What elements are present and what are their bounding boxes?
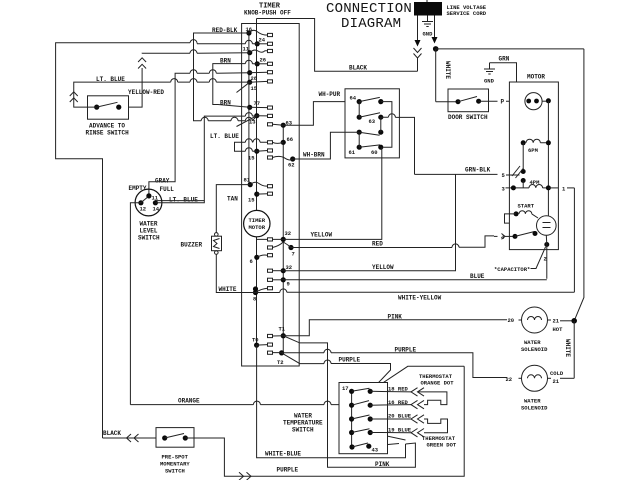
svg-text:GREEN DOT: GREEN DOT <box>427 442 457 449</box>
wire water level 12 to orange riser <box>130 203 141 405</box>
svg-text:PURPLE: PURPLE <box>277 467 299 474</box>
water solenoid hot (20-21) <box>508 307 575 353</box>
wire BLACK (cord to timer top) <box>257 19 418 72</box>
svg-text:WATER: WATER <box>524 339 541 346</box>
timer left bus B <box>256 19 258 346</box>
svg-text:17: 17 <box>342 385 349 392</box>
svg-text:MOTOR: MOTOR <box>527 74 545 81</box>
svg-text:77: 77 <box>254 100 261 107</box>
wire LT. BLUE (water level 14 to timer 13) <box>155 113 257 204</box>
wire PURPLE (T2 terminal to cold solenoid 22) <box>273 347 508 378</box>
centrifugal switch (motor 5) <box>502 143 526 188</box>
speed selector box <box>345 89 399 158</box>
wire WHITE (junction to top right bus) <box>436 49 584 80</box>
wire RED-BLK (timer 16 to 13) <box>194 27 257 121</box>
svg-text:ORANGE DOT: ORANGE DOT <box>421 380 455 387</box>
timer contact T2 <box>268 350 285 366</box>
selector contact 61 <box>349 130 384 156</box>
wire BLACK (to pre-spot switch) <box>103 430 157 442</box>
timer box <box>242 24 300 367</box>
thermostat orange dot symbol <box>418 373 455 405</box>
wire WHITE (buzzer to timer 8) <box>216 254 255 293</box>
svg-text:SOLENOID: SOLENOID <box>521 346 548 353</box>
wire GRN to motor <box>490 56 520 93</box>
svg-text:GRN: GRN <box>499 56 510 63</box>
svg-text:WHITE: WHITE <box>444 61 451 79</box>
svg-text:MOTOR: MOTOR <box>249 224 266 231</box>
wire selector 63 to GRN-BLK riser <box>381 117 415 174</box>
wire PURPLE (pre-spot to thermostat riser) <box>185 366 464 480</box>
svg-text:32: 32 <box>286 264 293 271</box>
timer contact 28 <box>247 70 272 82</box>
svg-text:PRE-SPOT: PRE-SPOT <box>162 454 189 461</box>
label 20 BLUE with arrow <box>370 412 424 423</box>
svg-text:60: 60 <box>371 149 378 156</box>
wire YELLOW-RED (adv switch to timer 11) <box>119 50 250 107</box>
wire right bus down to hot junction <box>574 49 584 321</box>
wire water level 14 right <box>155 201 204 203</box>
timer contact 77 <box>247 100 272 110</box>
wire PURPLE (T2 to thermostat 17) <box>282 353 391 391</box>
selector contact 63 <box>357 113 384 125</box>
svg-text:61: 61 <box>349 149 356 156</box>
svg-text:HOT: HOT <box>553 326 564 333</box>
label 18 RED with arrow <box>370 385 424 396</box>
svg-text:GRN-BLK: GRN-BLK <box>465 167 491 174</box>
svg-text:*CAPACITOR*: *CAPACITOR* <box>494 266 530 273</box>
advance to rinse switch <box>86 96 130 137</box>
svg-text:ORANGE: ORANGE <box>178 398 200 405</box>
wire TAN (timer 81 to buzzer) <box>216 185 250 233</box>
water solenoid cold (22-21) <box>506 365 575 411</box>
svg-text:63: 63 <box>369 118 376 125</box>
motor terminal 2 / capacitor node <box>544 235 550 278</box>
wire WH-BRN (timer 62 to selector 61) <box>293 132 360 159</box>
svg-text:GND: GND <box>423 31 434 38</box>
svg-text:4PM: 4PM <box>530 179 541 186</box>
wire PINK (lower link to thermostat 19/43) <box>328 443 416 468</box>
motor terminal P <box>501 99 525 106</box>
capacitor label <box>494 247 546 273</box>
line voltage service cord (black box) <box>414 0 487 17</box>
selector internal links <box>359 102 392 148</box>
wire GRN-BLK (to motor 5) <box>415 167 520 176</box>
svg-text:T2: T2 <box>277 359 284 366</box>
label TIMER KNOB-PUSH OFF <box>244 3 291 17</box>
svg-text:BLACK: BLACK <box>349 65 367 72</box>
svg-text:6: 6 <box>250 258 253 265</box>
svg-text:26: 26 <box>260 57 267 64</box>
title CONNECTION DIAGRAM <box>326 1 412 32</box>
water temperature switch label <box>283 413 323 434</box>
start winding coil <box>514 203 538 219</box>
door switch DS1 <box>436 89 498 121</box>
wire thermostat 17 to purple riser (pre-spot net) <box>370 366 464 391</box>
svg-text:WH-BRN: WH-BRN <box>303 152 325 159</box>
wire ORANGE (water level 12 to thermostat 16) <box>130 398 351 405</box>
timer contact 9 <box>268 277 290 287</box>
start tab (left protrusion) <box>505 214 517 223</box>
thermostat contact 19 <box>349 429 373 435</box>
svg-text:66: 66 <box>287 136 294 143</box>
timer contact 7 <box>268 242 295 258</box>
svg-text:2: 2 <box>544 256 547 263</box>
timer contact 66 <box>268 136 294 145</box>
svg-text:BLUE: BLUE <box>470 273 485 280</box>
svg-text:12: 12 <box>140 206 147 213</box>
wire white-yellow riser <box>573 188 575 292</box>
svg-text:WHITE: WHITE <box>219 286 237 293</box>
wire to timer 24 (border run to pre-spot) <box>56 40 258 438</box>
svg-text:32: 32 <box>285 230 292 237</box>
timer contact 16 <box>246 26 273 37</box>
timer contact 26 <box>255 57 273 67</box>
buzzer <box>181 233 222 255</box>
svg-text:RED: RED <box>372 241 383 248</box>
timer contact 15c <box>248 192 273 204</box>
start switch circle <box>537 216 557 236</box>
timer contact 6 <box>250 254 273 265</box>
svg-text:SERVICE CORD: SERVICE CORD <box>447 10 487 17</box>
timer contact 32b <box>268 264 293 273</box>
svg-text:RINSE SWITCH: RINSE SWITCH <box>86 130 130 137</box>
water level switch <box>129 185 175 242</box>
svg-text:21: 21 <box>553 378 560 385</box>
svg-text:T1: T1 <box>279 326 286 333</box>
wire white down to door switch <box>435 49 437 102</box>
svg-text:15: 15 <box>251 85 258 92</box>
svg-text:WATER: WATER <box>524 398 541 405</box>
thermostat green dot symbol <box>424 419 448 433</box>
svg-text:SWITCH: SWITCH <box>165 468 185 475</box>
wire PINK (timer T1 to hot solenoid 20) <box>283 314 507 336</box>
svg-text:14: 14 <box>153 206 160 213</box>
selector contact 64 <box>350 95 384 105</box>
svg-text:WATER: WATER <box>140 221 158 228</box>
svg-text:GRAY: GRAY <box>155 178 170 185</box>
thermostat contact 43 <box>349 443 378 454</box>
svg-text:DIAGRAM: DIAGRAM <box>341 16 401 32</box>
svg-text:15: 15 <box>248 197 255 204</box>
ground symbol GND (green) <box>484 63 495 85</box>
timer contact 63 <box>268 120 293 128</box>
svg-text:11: 11 <box>152 195 159 202</box>
label 19 BLUE with arrow <box>370 426 457 448</box>
svg-text:KNOB-PUSH OFF: KNOB-PUSH OFF <box>244 10 291 17</box>
svg-text:T0: T0 <box>252 337 259 344</box>
wire YELLOW (timer 32b to grn-blk riser) <box>283 174 455 271</box>
svg-text:BUZZER: BUZZER <box>181 242 203 249</box>
timer contact 62 <box>268 156 296 169</box>
svg-text:CONNECTION: CONNECTION <box>326 1 412 17</box>
svg-text:WATER: WATER <box>294 413 312 420</box>
svg-text:COLD: COLD <box>550 370 564 377</box>
wire timer 66 to 15b notch <box>235 139 268 151</box>
pre-spot momentary switch <box>156 428 194 475</box>
svg-text:20: 20 <box>508 317 515 324</box>
thermostat contact box <box>339 383 388 454</box>
svg-text:DOOR SWITCH: DOOR SWITCH <box>448 114 488 121</box>
svg-text:LT. BLUE: LT. BLUE <box>210 133 239 140</box>
timer right bus <box>282 125 284 353</box>
label 16 RED with arrow <box>370 399 424 409</box>
svg-text:43: 43 <box>372 447 379 454</box>
svg-text:YELLOW-RED: YELLOW-RED <box>128 89 164 96</box>
svg-text:WHITE-YELLOW: WHITE-YELLOW <box>398 295 442 302</box>
svg-text:GND: GND <box>484 78 495 85</box>
white lead arrow connector <box>432 16 438 44</box>
svg-text:PURPLE: PURPLE <box>339 357 361 364</box>
timer contact 8 <box>253 286 273 302</box>
svg-text:BLACK: BLACK <box>103 430 121 437</box>
svg-text:6PM: 6PM <box>528 147 539 154</box>
thermostat contact 16 <box>349 401 373 408</box>
svg-text:SWITCH: SWITCH <box>292 427 314 434</box>
timer left bus A <box>248 33 250 185</box>
svg-text:TIMER: TIMER <box>249 217 266 224</box>
wire white-blue net (T1 blade riser) <box>283 336 327 458</box>
ground symbol GND (service cord) <box>422 16 433 38</box>
svg-text:9: 9 <box>287 281 290 288</box>
svg-text:START: START <box>518 203 535 210</box>
wire YELLOW (timer 32a to selector 60) <box>283 147 382 239</box>
wire WHITE-YELLOW (timer 8 to motor 1) <box>256 289 575 302</box>
svg-text:SWITCH: SWITCH <box>138 235 160 242</box>
svg-text:81: 81 <box>244 177 251 184</box>
timer contact T0 <box>252 337 273 348</box>
timer motor M2 <box>244 210 270 236</box>
svg-text:WH-PUR: WH-PUR <box>319 91 341 98</box>
motor box <box>509 74 558 250</box>
thermostat slants 19R 43R <box>369 433 406 447</box>
node white junction <box>433 46 439 52</box>
svg-text:62: 62 <box>288 162 295 169</box>
timer contact 15b <box>248 149 273 162</box>
wire WHITE (hot to cold solenoid) <box>564 321 574 379</box>
svg-text:21: 21 <box>553 317 560 324</box>
svg-text:7: 7 <box>292 251 295 258</box>
wire BRN (timer 26 to 77) <box>213 58 257 108</box>
thermostat contact 17 <box>342 385 373 394</box>
svg-text:WHITE: WHITE <box>564 339 571 357</box>
coil 4PM (motor 3) <box>502 179 551 193</box>
wire WH-PUR (timer 63 to selector box 64) <box>283 91 359 125</box>
svg-text:FULL: FULL <box>160 186 175 193</box>
svg-text:ADVANCE TO: ADVANCE TO <box>89 123 125 130</box>
motor main winding circle <box>525 93 551 110</box>
wire RED (timer 7 to motor 4) <box>291 236 494 248</box>
svg-text:11: 11 <box>243 46 250 53</box>
timer contact 15a <box>237 80 273 93</box>
coil 6PM <box>521 139 551 154</box>
thermostat left bus <box>351 391 353 447</box>
wire LT. BLUE (adv switch to timer 15a) <box>70 76 250 107</box>
timer contact 24 <box>255 37 273 47</box>
svg-text:20 BLUE: 20 BLUE <box>388 412 412 419</box>
black lead arrow connector <box>414 16 422 59</box>
svg-text:15: 15 <box>248 155 255 162</box>
thermostat contact 20 <box>349 415 373 422</box>
svg-text:22: 22 <box>506 376 513 383</box>
motor terminal 4 <box>494 231 538 241</box>
svg-text:WHITE-BLUE: WHITE-BLUE <box>265 451 301 458</box>
svg-text:64: 64 <box>350 95 357 102</box>
motor terminal 1 exit <box>548 186 574 193</box>
svg-text:YELLOW: YELLOW <box>311 232 333 239</box>
timer contact 32a <box>257 230 292 242</box>
svg-text:16: 16 <box>246 26 253 33</box>
timer contact T1 <box>268 326 286 339</box>
selector contact 60 <box>357 145 384 156</box>
node hot junction <box>571 318 577 324</box>
svg-text:YELLOW: YELLOW <box>372 264 394 271</box>
svg-text:TEMPERATURE: TEMPERATURE <box>283 420 323 427</box>
timer contact 81 <box>244 177 273 188</box>
svg-text:TAN: TAN <box>227 196 238 203</box>
svg-text:LEVEL: LEVEL <box>140 228 158 235</box>
svg-text:EMPTY: EMPTY <box>129 185 147 192</box>
svg-text:P: P <box>501 99 505 106</box>
wire GRAY (water level 11 to timer 28) <box>149 70 250 196</box>
wire BLUE (timer 9 to motor 2) <box>283 273 547 280</box>
timer contact 13 <box>237 113 273 126</box>
timer contact 11 <box>243 46 273 56</box>
svg-text:SOLENOID: SOLENOID <box>521 405 548 412</box>
motor right internal bus <box>547 101 549 216</box>
svg-text:MOMENTARY: MOMENTARY <box>160 461 190 468</box>
svg-text:24: 24 <box>259 37 266 44</box>
wire WHITE-BLUE (timer T0 to thermostat 19) <box>257 345 406 458</box>
